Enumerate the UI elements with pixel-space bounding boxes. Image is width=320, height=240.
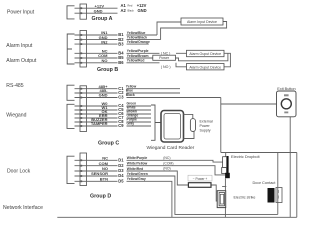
svg-text:RS-485: RS-485 bbox=[6, 83, 23, 89]
svg-text:Group D: Group D bbox=[90, 193, 111, 199]
svg-text:Yellow/Orange: Yellow/Orange bbox=[127, 40, 150, 44]
svg-text:Electric Dropbolt: Electric Dropbolt bbox=[231, 154, 260, 159]
svg-text:External: External bbox=[200, 120, 213, 124]
svg-text:B3: B3 bbox=[118, 41, 124, 46]
svg-text:Wiegand: Wiegand bbox=[6, 112, 26, 118]
svg-text:(NO): (NO) bbox=[163, 167, 170, 171]
svg-text:NO: NO bbox=[102, 58, 108, 63]
svg-text:Alarm Ouput Device: Alarm Ouput Device bbox=[189, 52, 221, 56]
svg-text:Supply: Supply bbox=[200, 129, 211, 133]
svg-text:(NC): (NC) bbox=[163, 156, 170, 160]
svg-text:NC: NC bbox=[102, 155, 108, 160]
svg-text:Yellow/Green: Yellow/Green bbox=[127, 172, 148, 176]
svg-text:Door Lock: Door Lock bbox=[7, 169, 31, 175]
svg-text:D5: D5 bbox=[118, 179, 124, 184]
svg-text:GND: GND bbox=[94, 8, 103, 13]
svg-text:Power: Power bbox=[159, 56, 170, 60]
svg-text:Yellow/Black: Yellow/Black bbox=[127, 35, 147, 39]
svg-text:Black: Black bbox=[128, 9, 135, 13]
svg-text:( NO ): ( NO ) bbox=[161, 65, 171, 69]
svg-text:BTN: BTN bbox=[100, 176, 108, 181]
svg-text:Yellow/Brown: Yellow/Brown bbox=[127, 54, 149, 58]
svg-text:C9: C9 bbox=[118, 123, 124, 128]
svg-text:GND: GND bbox=[138, 8, 147, 13]
svg-text:Yellow/Gray: Yellow/Gray bbox=[127, 177, 146, 181]
svg-text:White/Yellow: White/Yellow bbox=[127, 162, 148, 166]
svg-text:Door Contact: Door Contact bbox=[253, 180, 277, 185]
svg-text:Group C: Group C bbox=[98, 141, 119, 147]
svg-text:Wiegand Card Reader: Wiegand Card Reader bbox=[147, 145, 195, 151]
svg-text:Power Input: Power Input bbox=[7, 10, 35, 16]
svg-text:D4: D4 bbox=[118, 173, 124, 178]
svg-text:Alarm Input: Alarm Input bbox=[6, 43, 33, 49]
svg-text:Yellow/Purple: Yellow/Purple bbox=[127, 49, 149, 53]
svg-text:A2: A2 bbox=[121, 8, 127, 13]
svg-text:Yellow/Red: Yellow/Red bbox=[127, 59, 145, 63]
svg-text:(COM): (COM) bbox=[163, 161, 173, 165]
svg-text:Power: Power bbox=[200, 124, 211, 128]
svg-text:White/Purple: White/Purple bbox=[127, 156, 148, 160]
svg-text:Alarm Output: Alarm Output bbox=[6, 58, 37, 64]
svg-text:Red: Red bbox=[128, 4, 133, 8]
svg-text:Network Interface: Network Interface bbox=[3, 205, 43, 211]
svg-text:B6: B6 bbox=[118, 60, 124, 65]
svg-text:D2: D2 bbox=[118, 163, 124, 168]
svg-text:SENSOR: SENSOR bbox=[91, 171, 108, 176]
svg-text:White/Red: White/Red bbox=[127, 167, 143, 171]
svg-text:Black: Black bbox=[126, 93, 135, 97]
svg-text:GND: GND bbox=[99, 93, 108, 98]
svg-text:D1: D1 bbox=[118, 158, 124, 163]
svg-text:Electric strike: Electric strike bbox=[234, 196, 256, 200]
svg-text:Alarm Input Device: Alarm Input Device bbox=[187, 20, 217, 24]
svg-text:− Power +: − Power + bbox=[193, 177, 208, 181]
svg-text:( NC ): ( NC ) bbox=[161, 51, 171, 55]
svg-text:C3: C3 bbox=[118, 95, 124, 100]
svg-text:Yellow/Blue: Yellow/Blue bbox=[127, 31, 146, 35]
svg-text:Alarm Ouput Device: Alarm Ouput Device bbox=[189, 65, 221, 69]
svg-text:Exit Button: Exit Button bbox=[277, 87, 295, 91]
svg-text:COM: COM bbox=[99, 161, 109, 166]
svg-text:IN2: IN2 bbox=[101, 39, 108, 44]
svg-text:Blue: Blue bbox=[126, 89, 133, 93]
svg-text:Group B: Group B bbox=[97, 67, 118, 73]
svg-text:Group A: Group A bbox=[92, 16, 113, 22]
svg-text:TAMPER: TAMPER bbox=[91, 121, 108, 126]
